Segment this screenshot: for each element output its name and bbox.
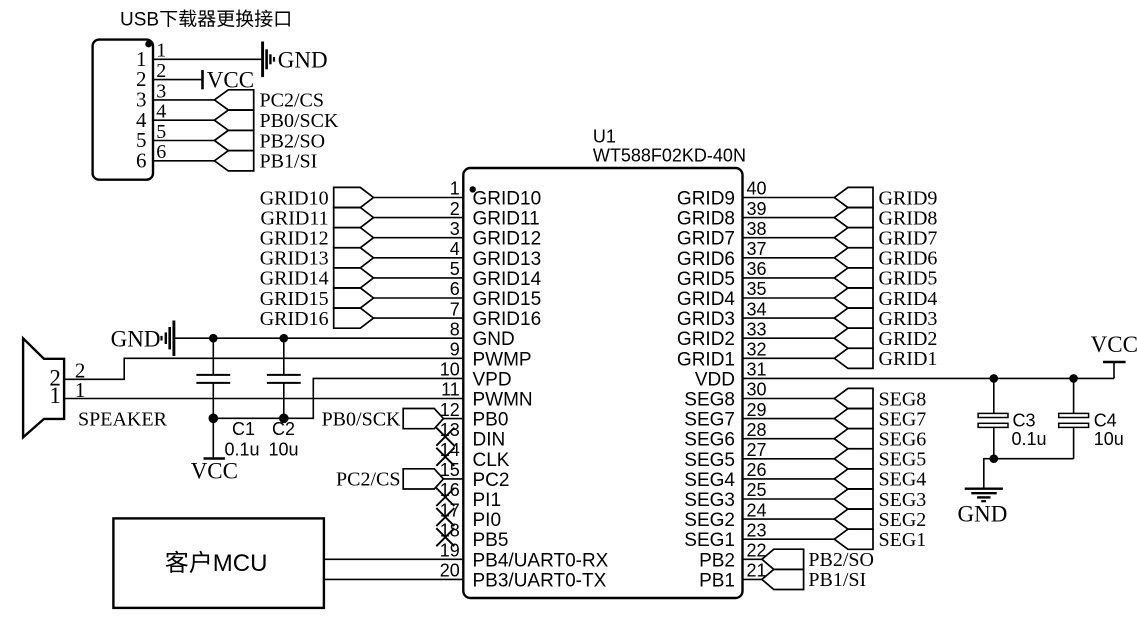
no-connect X (U1 pin 18) (436, 528, 454, 546)
svg-text:SEG3: SEG3 (879, 489, 927, 511)
svg-text:40: 40 (747, 179, 767, 199)
net flag SEG8 (U1 pin 30) (834, 388, 873, 408)
net flag GRID8 (U1 pin 39) (834, 208, 873, 228)
svg-text:2: 2 (156, 60, 166, 82)
net flag GRID14 (U1 pin 5) (334, 268, 374, 288)
wire C1 bottom lead (212, 383, 214, 418)
svg-text:5: 5 (450, 259, 460, 279)
svg-text:PB1: PB1 (699, 570, 735, 591)
wire GND stem (right) (984, 459, 994, 488)
net flag GRID11 (U1 pin 2) (334, 208, 374, 228)
net flag SEG6 (U1 pin 28) (834, 429, 873, 449)
net flag GRID4 (U1 pin 35) (834, 288, 873, 308)
svg-text:2: 2 (450, 199, 460, 219)
svg-text:9: 9 (450, 340, 460, 360)
svg-text:1: 1 (156, 40, 166, 62)
wire U1 pin 35 to GRID4 flag (743, 297, 835, 299)
wire U1 pin 26 to SEG4 flag (743, 478, 835, 480)
svg-text:C3: C3 (1013, 411, 1036, 431)
ground symbol (left of C1) (162, 321, 174, 356)
junction C2 bottom (279, 414, 289, 424)
svg-text:SEG5: SEG5 (684, 450, 735, 471)
net flag GRID6 (U1 pin 37) (834, 248, 873, 268)
no-connect X (U1 pin 16) (436, 488, 454, 506)
svg-text:VPD: VPD (473, 369, 512, 390)
power symbol VCC (below C1) (204, 457, 225, 460)
svg-text:0.1u: 0.1u (1012, 429, 1047, 449)
svg-text:10: 10 (440, 360, 460, 380)
net flag SEG3 (U1 pin 25) (834, 489, 873, 509)
svg-text:PB2: PB2 (699, 550, 735, 571)
wire VCC stem (below C1) (212, 418, 214, 458)
ground symbol (right, earth style) (965, 489, 1003, 502)
svg-text:GRID10: GRID10 (260, 187, 329, 209)
svg-text:6: 6 (136, 148, 147, 172)
svg-text:GRID11: GRID11 (473, 209, 540, 230)
svg-text:38: 38 (747, 219, 767, 239)
wire speaker pin 2 to PWMP (U1 pin 9) (64, 358, 463, 379)
svg-text:8: 8 (450, 319, 460, 339)
net flag GRID9 (U1 pin 40) (834, 187, 873, 207)
svg-text:36: 36 (747, 259, 767, 279)
wire C1 top lead (212, 338, 214, 375)
wire U1 pin 21 to PB1/SI flag (743, 578, 762, 580)
net flag PC2/CS (U1 pin 15) (403, 469, 443, 489)
wire C4 bottom lead (1073, 427, 1075, 458)
svg-text:GND: GND (473, 329, 515, 350)
svg-text:C1: C1 (232, 419, 255, 439)
svg-text:10u: 10u (1094, 429, 1124, 449)
svg-text:VCC: VCC (207, 68, 254, 93)
svg-text:37: 37 (747, 239, 767, 259)
svg-text:C2: C2 (272, 419, 295, 439)
svg-text:6: 6 (450, 279, 460, 299)
wire U1 pin 28 to SEG6 flag (743, 438, 835, 440)
svg-text:PB4/UART0-RX: PB4/UART0-RX (473, 550, 609, 571)
svg-text:23: 23 (747, 520, 767, 540)
wire connector pin 2 to VCC (153, 79, 203, 81)
svg-text:SEG4: SEG4 (684, 470, 735, 491)
svg-text:SEG7: SEG7 (879, 408, 927, 430)
svg-text:GRID3: GRID3 (879, 308, 938, 330)
svg-text:SEG3: SEG3 (684, 490, 735, 511)
svg-text:PB0/SCK: PB0/SCK (260, 110, 339, 132)
wire C3 bottom lead (993, 427, 995, 458)
svg-text:GRID3: GRID3 (677, 309, 735, 330)
svg-text:SEG6: SEG6 (684, 430, 735, 451)
wire GRID12 flag to U1 pin 3 (374, 237, 464, 239)
svg-text:GRID11: GRID11 (260, 207, 328, 229)
svg-text:PC2/CS: PC2/CS (260, 90, 324, 112)
net flag GRID2 (U1 pin 33) (834, 328, 873, 348)
wire U1 pin 24 to SEG2 flag (743, 518, 835, 520)
svg-text:SEG8: SEG8 (879, 388, 927, 410)
net flag PB1/SI (U1 pin 21) (762, 569, 804, 589)
svg-text:27: 27 (747, 440, 767, 460)
wire C2 top lead (283, 338, 285, 375)
svg-text:25: 25 (747, 480, 767, 500)
svg-text:4: 4 (450, 239, 460, 259)
speaker LS1 (23, 338, 64, 437)
no-connect X (U1 pin 13) (436, 428, 454, 446)
wire C3/C4 ground link (994, 458, 1074, 460)
svg-text:35: 35 (747, 279, 767, 299)
svg-text:PB3/UART0-TX: PB3/UART0-TX (473, 570, 607, 591)
junction C3/GND (990, 454, 999, 463)
net flag SEG7 (U1 pin 29) (834, 409, 873, 429)
svg-text:16: 16 (440, 480, 460, 500)
svg-text:C4: C4 (1094, 411, 1117, 431)
net flag GRID13 (U1 pin 4) (334, 248, 374, 268)
svg-text:26: 26 (747, 460, 767, 480)
svg-text:19: 19 (440, 541, 460, 561)
capacitor C4 (1059, 413, 1089, 427)
wire GRID16 flag to U1 pin 7 (374, 317, 464, 319)
svg-text:39: 39 (747, 199, 767, 219)
svg-text:PB2/SO: PB2/SO (260, 130, 326, 152)
capacitor C3 (978, 413, 1008, 427)
svg-text:GRID4: GRID4 (879, 288, 938, 310)
wire speaker pin 1 to PWMN (U1 pin 11) (64, 398, 463, 400)
svg-text:SEG5: SEG5 (879, 449, 927, 471)
svg-text:GRID14: GRID14 (473, 269, 542, 290)
junction VDD/C3 (990, 374, 999, 383)
wire GRID11 flag to U1 pin 2 (374, 217, 464, 219)
svg-text:GRID12: GRID12 (473, 229, 542, 250)
svg-text:PB0: PB0 (473, 410, 509, 431)
svg-text:GRID14: GRID14 (260, 268, 329, 290)
net flag PB0/SCK (connector pin 4) (214, 110, 253, 130)
net flag GRID16 (U1 pin 7) (334, 308, 374, 328)
svg-text:SEG1: SEG1 (684, 530, 735, 551)
svg-text:GRID8: GRID8 (879, 207, 938, 229)
wire U1 pin 25 to SEG3 flag (743, 498, 835, 500)
wire connector pin 6 to net flag (153, 160, 215, 162)
svg-text:1: 1 (450, 179, 460, 199)
net flag SEG5 (U1 pin 27) (834, 449, 873, 469)
svg-text:PWMN: PWMN (473, 390, 533, 411)
svg-text:28: 28 (747, 420, 767, 440)
svg-text:PB1/SI: PB1/SI (808, 569, 866, 591)
wire MCU to U1 pin 19 (PB4/UART0-RX) (324, 558, 463, 560)
wire U1 pin 27 to SEG5 flag (743, 458, 835, 460)
net flag PB2/SO (U1 pin 22) (762, 549, 804, 569)
wire U1 pin 33 to GRID2 flag (743, 337, 835, 339)
net flag PC2/CS (connector pin 3) (214, 90, 253, 110)
net flag SEG2 (U1 pin 24) (834, 509, 873, 529)
svg-text:SEG4: SEG4 (879, 469, 927, 491)
svg-text:GRID1: GRID1 (879, 348, 938, 370)
svg-text:VCC: VCC (191, 459, 238, 484)
客户MCU label (166, 551, 188, 573)
svg-text:0.1u: 0.1u (225, 440, 260, 460)
svg-text:14: 14 (440, 440, 460, 460)
wire GND rail to U1 pin 8 (174, 337, 463, 339)
power symbol VCC (top right) (1103, 361, 1126, 364)
svg-text:PC2: PC2 (473, 470, 510, 491)
net flag GRID10 (U1 pin 1) (334, 187, 374, 207)
svg-text:34: 34 (747, 299, 767, 319)
svg-text:29: 29 (747, 400, 767, 420)
wire U1 pin 40 to GRID9 flag (743, 197, 835, 199)
wire U1 pin 22 to PB2/SO flag (743, 558, 762, 560)
svg-text:VDD: VDD (695, 369, 735, 390)
no-connect X (U1 pin 17) (436, 508, 454, 526)
svg-text:PI0: PI0 (473, 510, 502, 531)
svg-text:GND: GND (278, 48, 328, 73)
svg-text:GRID7: GRID7 (677, 229, 735, 250)
svg-text:PB5: PB5 (473, 530, 509, 551)
capacitor C2 (267, 375, 301, 383)
power symbol VCC (connector pin 2) (201, 70, 204, 89)
wire GRID15 flag to U1 pin 6 (374, 297, 464, 299)
wire PC2/CS flag to U1 pin 15 (443, 478, 463, 480)
svg-text:GRID13: GRID13 (260, 248, 329, 270)
net flag GRID5 (U1 pin 36) (834, 268, 873, 288)
svg-text:6: 6 (156, 141, 166, 163)
wire U1 pin 23 to SEG1 flag (743, 538, 835, 540)
wire C1/C2 bottom rail to VPD (U1 pin 10) (213, 378, 463, 418)
svg-text:GRID5: GRID5 (879, 268, 938, 290)
svg-text:5: 5 (156, 121, 166, 143)
svg-text:GRID6: GRID6 (677, 249, 735, 270)
net flag GRID12 (U1 pin 3) (334, 228, 374, 248)
wire VCC riser (1113, 362, 1115, 378)
op IC U1 body (463, 168, 742, 598)
svg-text:17: 17 (440, 500, 460, 520)
svg-text:SEG6: SEG6 (879, 429, 927, 451)
svg-text:PB2/SO: PB2/SO (808, 549, 874, 571)
block 客户MCU (113, 518, 324, 608)
svg-text:PC2/CS: PC2/CS (336, 469, 400, 491)
svg-text:GRID12: GRID12 (260, 228, 329, 250)
wire U1 pin 36 to GRID5 flag (743, 277, 835, 279)
wire MCU to U1 pin 20 (PB3/UART0-TX) (324, 578, 463, 580)
junction VDD/C4 (1069, 374, 1078, 383)
no-connect X (U1 pin 14) (436, 448, 454, 466)
svg-text:GRID9: GRID9 (677, 189, 735, 210)
svg-text:SEG1: SEG1 (879, 529, 927, 551)
svg-text:GRID2: GRID2 (677, 329, 735, 350)
wire C3 top lead (993, 378, 995, 413)
svg-text:GRID7: GRID7 (879, 228, 938, 250)
junction GND/C2 (280, 334, 289, 343)
net flag GRID15 (U1 pin 6) (334, 288, 374, 308)
wire U1 pin 29 to SEG7 flag (743, 418, 835, 420)
svg-text:10u: 10u (269, 440, 299, 460)
svg-text:GRID16: GRID16 (473, 309, 542, 330)
svg-text:WT588F02KD-40N: WT588F02KD-40N (593, 145, 746, 165)
svg-text:GRID5: GRID5 (677, 269, 735, 290)
net flag GRID7 (U1 pin 38) (834, 228, 873, 248)
svg-text:PWMP: PWMP (473, 349, 532, 370)
wire connector pin 5 to net flag (153, 140, 215, 142)
svg-text:GRID10: GRID10 (473, 189, 542, 210)
svg-text:SEG2: SEG2 (684, 510, 735, 531)
capacitor C1 (196, 375, 230, 383)
svg-text:PI1: PI1 (473, 490, 502, 511)
wire U1 pin 37 to GRID6 flag (743, 257, 835, 259)
svg-text:SEG2: SEG2 (879, 509, 927, 531)
net flag PB0/SCK (U1 pin 12) (403, 409, 443, 429)
connector J1 pin-1 indicator dot (145, 41, 152, 48)
wire U1 pin 39 to GRID8 flag (743, 217, 835, 219)
net flag SEG1 (U1 pin 23) (834, 529, 873, 549)
svg-text:24: 24 (747, 500, 767, 520)
svg-text:MCU: MCU (213, 550, 268, 577)
connector J1 body (93, 40, 153, 180)
wire C4 top lead (1073, 378, 1075, 413)
svg-text:SPEAKER: SPEAKER (78, 408, 168, 430)
wire GRID14 flag to U1 pin 5 (374, 277, 464, 279)
wire U1 pin 32 to GRID1 flag (743, 357, 835, 359)
svg-text:32: 32 (747, 340, 767, 360)
svg-text:1: 1 (49, 383, 61, 408)
svg-text:GRID1: GRID1 (677, 349, 735, 370)
svg-text:CLK: CLK (473, 450, 510, 471)
svg-text:GRID9: GRID9 (879, 187, 938, 209)
svg-text:PB1/SI: PB1/SI (260, 151, 318, 173)
net flag PB1/SI (connector pin 6) (214, 151, 253, 171)
svg-text:30: 30 (747, 380, 767, 400)
wire U1 pin 30 to SEG8 flag (743, 398, 835, 400)
svg-text:11: 11 (441, 380, 460, 400)
net flag GRID1 (U1 pin 32) (834, 348, 873, 368)
svg-text:DIN: DIN (473, 430, 506, 451)
svg-text:3: 3 (450, 219, 460, 239)
svg-text:SEG8: SEG8 (684, 390, 735, 411)
ground symbol (connector pin 1) (263, 42, 274, 78)
wire C2 bottom lead (283, 383, 285, 418)
svg-text:GRID2: GRID2 (879, 328, 938, 350)
svg-text:USB: USB (120, 10, 159, 31)
wire connector pin 1 to GND (153, 58, 263, 60)
wire connector pin 4 to net flag (153, 119, 215, 121)
svg-text:GRID15: GRID15 (473, 289, 542, 310)
svg-text:PB0/SCK: PB0/SCK (322, 408, 401, 430)
svg-text:33: 33 (747, 319, 767, 339)
wire U1 pin 34 to GRID3 flag (743, 317, 835, 319)
net flag PB2/SO (connector pin 5) (214, 130, 253, 150)
svg-text:4: 4 (156, 101, 166, 123)
svg-text:VCC: VCC (1091, 332, 1137, 357)
wire GRID10 flag to U1 pin 1 (374, 197, 464, 199)
net flag SEG4 (U1 pin 26) (834, 469, 873, 489)
svg-text:GRID6: GRID6 (879, 248, 938, 270)
wire GRID13 flag to U1 pin 4 (374, 257, 464, 259)
wire PB0/SCK flag to U1 pin 12 (443, 418, 463, 420)
junction C1/VCC (209, 414, 219, 424)
svg-text:20: 20 (440, 561, 460, 581)
svg-text:3: 3 (156, 80, 166, 102)
net flag GRID3 (U1 pin 34) (834, 308, 873, 328)
wire connector pin 3 to net flag (153, 99, 215, 101)
svg-text:GRID8: GRID8 (677, 209, 735, 230)
wire U1 pin 38 to GRID7 flag (743, 237, 835, 239)
svg-text:18: 18 (440, 520, 460, 540)
svg-text:7: 7 (450, 299, 460, 319)
junction GND/C1 (209, 334, 218, 343)
svg-text:GRID13: GRID13 (473, 249, 542, 270)
svg-text:GRID16: GRID16 (260, 308, 329, 330)
svg-text:SEG7: SEG7 (684, 410, 735, 431)
svg-text:GRID15: GRID15 (260, 288, 329, 310)
svg-text:GND: GND (958, 502, 1008, 527)
svg-text:GRID4: GRID4 (677, 289, 736, 310)
U1 pin-1 indicator dot (470, 186, 476, 192)
wire VDD rail (U1 pin 31 to VCC) (743, 377, 1115, 379)
svg-text:U1: U1 (593, 127, 616, 147)
svg-text:31: 31 (747, 360, 767, 380)
svg-text:GND: GND (111, 326, 161, 351)
svg-text:13: 13 (440, 420, 460, 440)
